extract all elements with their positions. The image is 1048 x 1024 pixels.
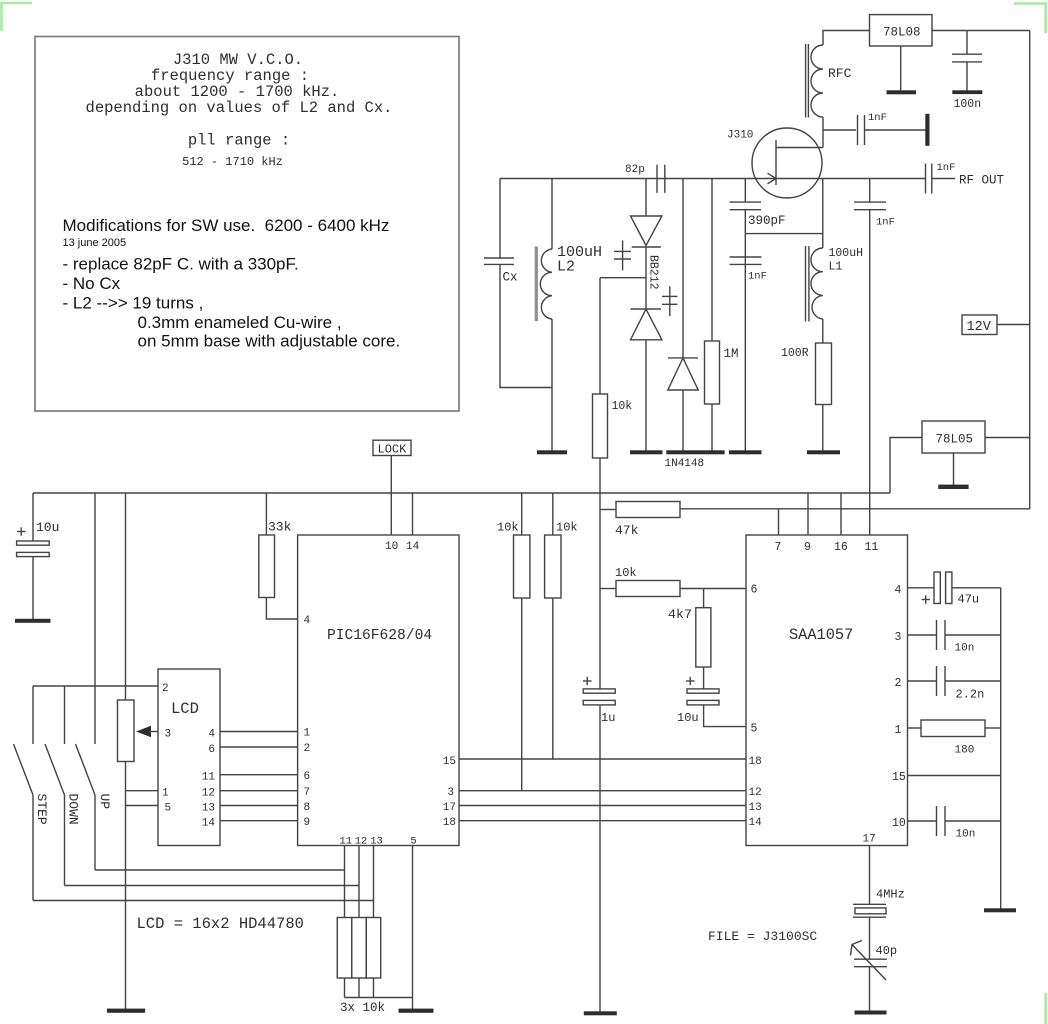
svg-text:4: 4 (895, 584, 902, 597)
resistor R8 10k body (616, 581, 680, 597)
svg-text:7: 7 (304, 787, 311, 799)
capacitor 100n vertical lead (966, 31, 968, 55)
resistor R2 1M lower lead (711, 404, 713, 451)
ground bar under 100R (807, 450, 840, 454)
capacitor C6 10u plates (687, 689, 719, 705)
SAA pin 4 wire (908, 587, 935, 589)
svg-text:0.3mm enameled Cu-wire ,: 0.3mm enameled Cu-wire , (138, 313, 342, 332)
capacitor 100n lower lead (966, 62, 968, 91)
svg-text:14: 14 (202, 818, 216, 830)
svg-text:12: 12 (749, 787, 762, 799)
svg-text:12V: 12V (967, 320, 992, 335)
capacitor 82p plates (657, 165, 665, 193)
wire VCO output to SAA pin 11 (869, 210, 871, 535)
svg-text:pll range :: pll range : (188, 132, 290, 150)
resistor R3 100R body (816, 343, 832, 405)
svg-text:10n: 10n (955, 643, 975, 655)
wire LCD4 to PIC1 (220, 731, 298, 733)
wire Cx branch down (499, 179, 501, 258)
capacitor C7 47u plates (934, 572, 952, 604)
svg-text:1nF: 1nF (876, 217, 895, 229)
wire Cx bottom loop (500, 264, 552, 387)
capacitor C-out 1nF plates (854, 202, 886, 210)
svg-text:13: 13 (749, 802, 762, 814)
SAA pin 1 wire left (908, 727, 922, 729)
svg-text:78L05: 78L05 (936, 433, 974, 447)
ground bar under right bus (984, 908, 1016, 912)
svg-text:5: 5 (165, 803, 172, 815)
switch UP lower stub (94, 795, 96, 870)
microcontroller U1 PIC16F628/04 box (298, 535, 459, 846)
ground bar under BB212 (630, 450, 663, 454)
varactor BB212 bottom lead (645, 340, 647, 451)
SAA pin 16 stub (840, 493, 842, 535)
svg-text:1N4148: 1N4148 (665, 458, 705, 470)
wire LCD14 to PIC9 (220, 820, 298, 822)
trimmer capacitor 40p plates (854, 959, 887, 967)
svg-text:100R: 100R (781, 347, 809, 360)
SAA pin 2 wire (908, 680, 937, 682)
svg-text:2: 2 (304, 743, 311, 755)
regulator U3 78L05 box (922, 421, 985, 453)
svg-text:18: 18 (749, 756, 762, 768)
svg-text:FILE = J3100SC: FILE = J3100SC (708, 929, 817, 944)
resistor R6 10k body (545, 535, 561, 598)
svg-text:1nF: 1nF (748, 271, 767, 283)
svg-text:11: 11 (865, 541, 879, 554)
svg-text:390pF: 390pF (748, 214, 786, 228)
green corner mark top-left (2, 3, 33, 31)
svg-text:1: 1 (162, 788, 169, 800)
capacitor Cx plates (484, 258, 514, 264)
svg-text:UP: UP (97, 794, 112, 810)
wire 1u to ground (599, 705, 601, 1012)
capacitor 390pF upper lead (744, 179, 746, 203)
svg-text:J310: J310 (727, 130, 753, 142)
wire 12V feed line to SAA pins (680, 508, 1030, 510)
capacitor C10 10n right lead (945, 820, 1001, 822)
capacitor C10 10n plates (937, 806, 946, 836)
wire 10u to SAA pin 5 (704, 705, 746, 727)
transistor Q1 source arrow (768, 173, 777, 184)
svg-text:13 june 2005: 13 june 2005 (63, 237, 127, 249)
resistor R3 100R lower lead (822, 405, 824, 451)
transistor Q1 drain lead (776, 147, 823, 149)
svg-text:5: 5 (751, 723, 758, 736)
wire UP to PIC pin 11 (95, 869, 345, 871)
svg-text:LCD = 16x2 HD44780: LCD = 16x2 HD44780 (137, 915, 304, 933)
svg-text:18: 18 (443, 817, 456, 829)
svg-text:- replace 82pF C. with a 330pF: - replace 82pF C. with a 330pF. (63, 255, 299, 274)
SAA pin 7 stub (778, 509, 780, 535)
svg-text:1: 1 (895, 724, 902, 737)
svg-text:RF OUT: RF OUT (959, 174, 1005, 188)
wire 33k to PIC pin 4 (266, 598, 297, 620)
capacitor 100n plates (952, 54, 982, 62)
wire LCD12 to PIC7 (220, 790, 298, 792)
PIC pin 12 stub (358, 846, 360, 918)
inductor L2 lower lead (551, 319, 553, 451)
svg-text:4k7: 4k7 (668, 607, 692, 622)
transistor Q1 gate bar (775, 140, 777, 185)
capacitor RF OUT 1nF plates (926, 164, 932, 194)
capacitor C8 10n right lead (945, 634, 1001, 636)
inductor L2 coil arcs (540, 249, 552, 319)
capacitor C9 2.2n right lead (945, 680, 1001, 682)
resistor R8 10k right lead to SAA pin 6 (680, 588, 746, 590)
wire trimmer to ground (869, 967, 871, 1011)
inductor L1 coil arcs (811, 248, 823, 319)
capacitor C6 10u plus sign (686, 677, 695, 685)
capacitor 390pF plates (730, 202, 761, 210)
ground bar under 10u (15, 619, 51, 623)
diode D1 1N4148 symbol (668, 358, 698, 390)
inductor RFC core lines (806, 44, 809, 118)
svg-text:3: 3 (447, 787, 454, 799)
svg-text:4MHz: 4MHz (876, 888, 905, 902)
inductor RFC coil arcs (811, 45, 823, 117)
capacitor C7 47u right lead (952, 587, 1001, 589)
resistor R2 1M upper lead (711, 179, 713, 342)
svg-text:6: 6 (304, 771, 311, 783)
wire source node down to L1 (822, 179, 824, 249)
capacitor C9 2.2n plates (937, 666, 946, 696)
resistor R5 10k body (514, 535, 530, 598)
pll U4 SAA1057 box (746, 535, 908, 846)
wire wiper to LCD pin 3 (149, 731, 158, 733)
resistor R9 4k7 upper lead (703, 589, 705, 608)
PIC pin 5 ground lead (412, 846, 414, 1009)
SAA pin 10 wire (908, 820, 937, 822)
resistor R8 10k left lead (600, 588, 616, 590)
LOCK box (373, 440, 411, 455)
varactor BB212 upper diode (631, 216, 662, 247)
svg-text:11: 11 (339, 836, 352, 848)
green corner mark top-right (1014, 4, 1046, 34)
ground bar under 100n (952, 90, 982, 94)
resistor R2 1M body (705, 341, 720, 404)
svg-text:Modifications for SW use. 620: Modifications for SW use. 6200 - 6400 kH… (63, 216, 390, 235)
ground bar under 78L08 (887, 90, 917, 94)
svg-text:LOCK: LOCK (378, 442, 408, 456)
resistor R4 33k upper lead (265, 493, 267, 535)
capacitor C4 10u lower lead (32, 557, 34, 619)
wire tune line down to 1u (599, 458, 601, 689)
regulator U2 78L08 box (870, 15, 933, 46)
wire DOWN to PIC pin 12 (65, 885, 360, 887)
diode D1 1N4148 upper lead (682, 179, 684, 359)
svg-text:180: 180 (955, 745, 975, 757)
svg-text:3x 10k: 3x 10k (340, 1001, 385, 1015)
svg-text:1M: 1M (724, 347, 739, 361)
capacitor C4 10u plus sign (17, 527, 26, 535)
trimmer capacitor 40p arrow (851, 941, 887, 981)
capacitor C7 47u plus sign (922, 595, 931, 603)
capacitor C5 1u plus sign (583, 677, 592, 685)
svg-text:4: 4 (304, 615, 311, 627)
wire LCD pin1 to ground line (126, 790, 159, 792)
svg-text:5: 5 (410, 836, 416, 848)
svg-text:on 5mm base with adjustable co: on 5mm base with adjustable core. (138, 332, 401, 351)
resistor R10 180 right lead (985, 727, 1001, 729)
inductor L1 lower lead (822, 319, 824, 343)
svg-text:9: 9 (804, 541, 811, 554)
svg-text:10n: 10n (956, 829, 976, 841)
switch DOWN lower stub (64, 795, 66, 886)
wire 390pF branch to ground (744, 234, 746, 451)
wire 12V to rail (997, 324, 1030, 326)
svg-text:10: 10 (385, 541, 398, 553)
svg-text:9: 9 (304, 817, 311, 829)
svg-text:2: 2 (162, 683, 169, 695)
svg-text:6: 6 (208, 744, 215, 756)
resistor R-tune 10k body (593, 394, 608, 458)
switch STEP upper stub (32, 686, 34, 744)
SAA pin 3 wire (908, 634, 937, 636)
ground bar under 78L05 (938, 485, 968, 489)
svg-text:17: 17 (443, 802, 456, 814)
svg-text:47u: 47u (958, 593, 980, 607)
wire PIC17 to SAA13 (459, 805, 746, 807)
diode D1 1N4148 lower lead (682, 390, 684, 451)
svg-text:10: 10 (892, 817, 906, 830)
SAA pin 15 wire (908, 775, 1001, 777)
svg-text:15: 15 (892, 771, 906, 784)
SAA pin 17 stub (869, 846, 871, 905)
svg-text:13: 13 (202, 803, 215, 815)
wire R6 to clock line (552, 598, 554, 759)
svg-text:100n: 100n (954, 98, 982, 111)
inductor L2 branch top (551, 179, 553, 250)
potentiometer wiper arrow (136, 726, 151, 737)
svg-text:6: 6 (751, 584, 758, 597)
varactor BB212 top lead (645, 179, 647, 217)
resistor R6 10k pullup lead (552, 493, 554, 535)
resistor R9 4k7 body (696, 608, 711, 667)
varactor BB212 lower diode (631, 309, 662, 340)
ground bar under 390pF (729, 450, 762, 454)
wire PIC15 to SAA18 (459, 758, 746, 760)
note box frame (35, 37, 459, 412)
wire SAA right bus (1000, 588, 1002, 910)
resistor R10 180 body (921, 720, 985, 737)
green mark bottom-right (1044, 993, 1047, 1024)
ground bar under trimmer (855, 1011, 887, 1015)
svg-text:16: 16 (834, 541, 848, 554)
svg-text:10u: 10u (36, 520, 59, 535)
svg-text:Cx: Cx (503, 271, 518, 285)
svg-text:10k: 10k (497, 521, 519, 535)
svg-text:15: 15 (443, 756, 456, 768)
svg-text:82p: 82p (625, 164, 645, 176)
inductor L2 core lines (535, 247, 538, 322)
capacitor C-drain 1nF plates (858, 115, 865, 145)
svg-text:L1: L1 (829, 261, 843, 274)
wire LCD6 to PIC2 (220, 746, 298, 748)
svg-text:1nF: 1nF (868, 112, 887, 124)
svg-text:12: 12 (202, 788, 215, 800)
svg-text:2.2n: 2.2n (956, 688, 985, 702)
capacitor C-source 1nF plates (730, 257, 762, 264)
feedthrough bar at 1nF (925, 114, 929, 146)
wire 390pF to source node (745, 210, 823, 234)
svg-text:10u: 10u (677, 711, 699, 725)
inductor L1 core lines (806, 246, 809, 322)
capacitor C8 10n plates (937, 620, 946, 650)
ground stem 78L05 (953, 453, 955, 485)
supply box 12V (962, 315, 997, 335)
svg-text:- No Cx: - No Cx (63, 274, 121, 293)
wire LCD pin2 supply (33, 685, 158, 687)
svg-text:1u: 1u (601, 711, 615, 725)
svg-text:40p: 40p (876, 944, 898, 958)
wire crystal to trimmer (869, 917, 871, 959)
capacitor C-drain 1nF wire left (823, 129, 856, 131)
potentiometer lower lead (125, 762, 127, 1009)
ground bar under PIC pin 5 (399, 1009, 434, 1013)
wire rail to PIC pin 14 (412, 493, 414, 535)
wire 78L05 input from 12V rail (985, 437, 1030, 439)
resistor R7 47k left lead (600, 509, 616, 511)
PIC pin 13 stub (373, 846, 375, 918)
svg-text:1: 1 (304, 728, 311, 740)
svg-text:STEP: STEP (34, 794, 49, 825)
wire UP switch feed from rail (94, 493, 96, 744)
resistor array 3x10k body 2 (352, 918, 367, 979)
resistor array lower leads (345, 978, 374, 998)
svg-text:- L2 -->> 19 turns ,: - L2 -->> 19 turns , (63, 294, 204, 313)
svg-text:SAA1057: SAA1057 (789, 626, 853, 644)
switch STEP blade (14, 744, 34, 795)
svg-text:RFC: RFC (828, 66, 852, 81)
svg-text:47k: 47k (615, 523, 639, 538)
wire RFC top to 78L08 input (823, 31, 870, 46)
capacitor C6 10u upper lead (703, 667, 705, 689)
crystal X1 plates (853, 904, 886, 917)
svg-text:7: 7 (775, 541, 782, 554)
svg-text:PIC16F628/04: PIC16F628/04 (327, 628, 432, 644)
svg-text:10k: 10k (612, 400, 633, 413)
wire main VCO node (500, 178, 926, 180)
wire LOCK to PIC pin 10 (390, 456, 392, 536)
PIC pin 11 stub (344, 846, 346, 918)
wire STEP to PIC pin 13 (33, 900, 374, 902)
capacitor C-out 1nF upper lead (869, 179, 871, 203)
capacitor C-drain 1nF wire right (865, 129, 926, 131)
svg-text:12: 12 (355, 836, 368, 848)
wire R5 to data line (521, 598, 523, 791)
varactor BB212 middle lead (645, 247, 647, 309)
wire resistor array common (345, 997, 413, 999)
wire PIC3 to SAA12 (459, 790, 746, 792)
potentiometer body (118, 700, 135, 762)
switch DOWN upper stub (64, 686, 66, 744)
crystal X1 body (855, 908, 886, 914)
svg-text:LCD: LCD (171, 700, 199, 718)
potentiometer upper lead (125, 493, 127, 700)
varactor BB212 lower cap mark (662, 286, 677, 316)
svg-text:13: 13 (370, 836, 383, 848)
svg-text:11: 11 (202, 772, 216, 784)
wire LCD pin5 to ground line (126, 805, 159, 807)
svg-text:L2: L2 (557, 259, 575, 276)
switch UP blade (76, 744, 96, 795)
svg-text:10k: 10k (556, 521, 578, 535)
wire 78L08 output to right rail (932, 30, 1030, 32)
ground bar under L2 (537, 450, 567, 454)
wire +5V rail (33, 492, 890, 494)
wire LCD13 to PIC8 (220, 805, 298, 807)
SAA pin 9 stub (807, 493, 809, 535)
varactor BB212 upper cap mark (614, 240, 631, 270)
wire right supply rail (1029, 31, 1031, 509)
resistor array 3x10k body 1 (337, 918, 352, 979)
svg-text:4: 4 (208, 729, 215, 741)
wire varactor tuning node (600, 277, 646, 279)
svg-text:512 - 1710 kHz: 512 - 1710 kHz (182, 155, 283, 169)
ground bar under 1N4148 and 1M (666, 450, 724, 454)
wire RF OUT stub (932, 178, 955, 180)
capacitor C5 1u plates (583, 689, 615, 705)
svg-text:33k: 33k (268, 520, 292, 535)
capacitor C4 10u plates (17, 541, 50, 557)
resistor R-tune 10k upper lead (599, 278, 601, 394)
transistor Q1 J310 circle (752, 128, 822, 198)
svg-text:10k: 10k (615, 566, 637, 580)
switch STEP lower stub (32, 795, 34, 901)
svg-text:3: 3 (895, 631, 902, 644)
capacitor C4 10u upper lead (32, 493, 34, 541)
resistor R7 47k body (616, 502, 680, 518)
svg-text:14: 14 (406, 541, 420, 553)
resistor R5 10k pullup lead (521, 493, 523, 535)
svg-text:8: 8 (304, 802, 311, 814)
svg-text:2: 2 (895, 677, 902, 690)
wire 78L05 output to +5 rail step (890, 438, 922, 494)
svg-text:14: 14 (749, 817, 763, 829)
ground stem 78L08 (900, 46, 902, 91)
svg-text:depending on values of L2 and: depending on values of L2 and Cx. (86, 99, 393, 117)
LCD box (158, 669, 220, 846)
wire LCD11 to PIC6 (220, 774, 298, 776)
resistor array 3x10k body 3 (366, 918, 381, 979)
wire PIC18 to SAA14 (459, 820, 746, 822)
svg-text:3: 3 (165, 729, 172, 741)
resistor R4 33k body (259, 535, 275, 598)
svg-text:DOWN: DOWN (66, 794, 81, 825)
switch DOWN blade (45, 744, 65, 795)
svg-text:100uH: 100uH (829, 247, 864, 260)
svg-text:78L08: 78L08 (883, 26, 921, 40)
wire RFC bottom to drain corner (822, 117, 824, 148)
svg-text:BB212: BB212 (647, 255, 660, 290)
svg-text:1nF: 1nF (937, 162, 956, 174)
svg-text:17: 17 (863, 834, 876, 846)
ground bar under potentiometer (107, 1009, 145, 1013)
ground bar under 1u (584, 1011, 617, 1015)
